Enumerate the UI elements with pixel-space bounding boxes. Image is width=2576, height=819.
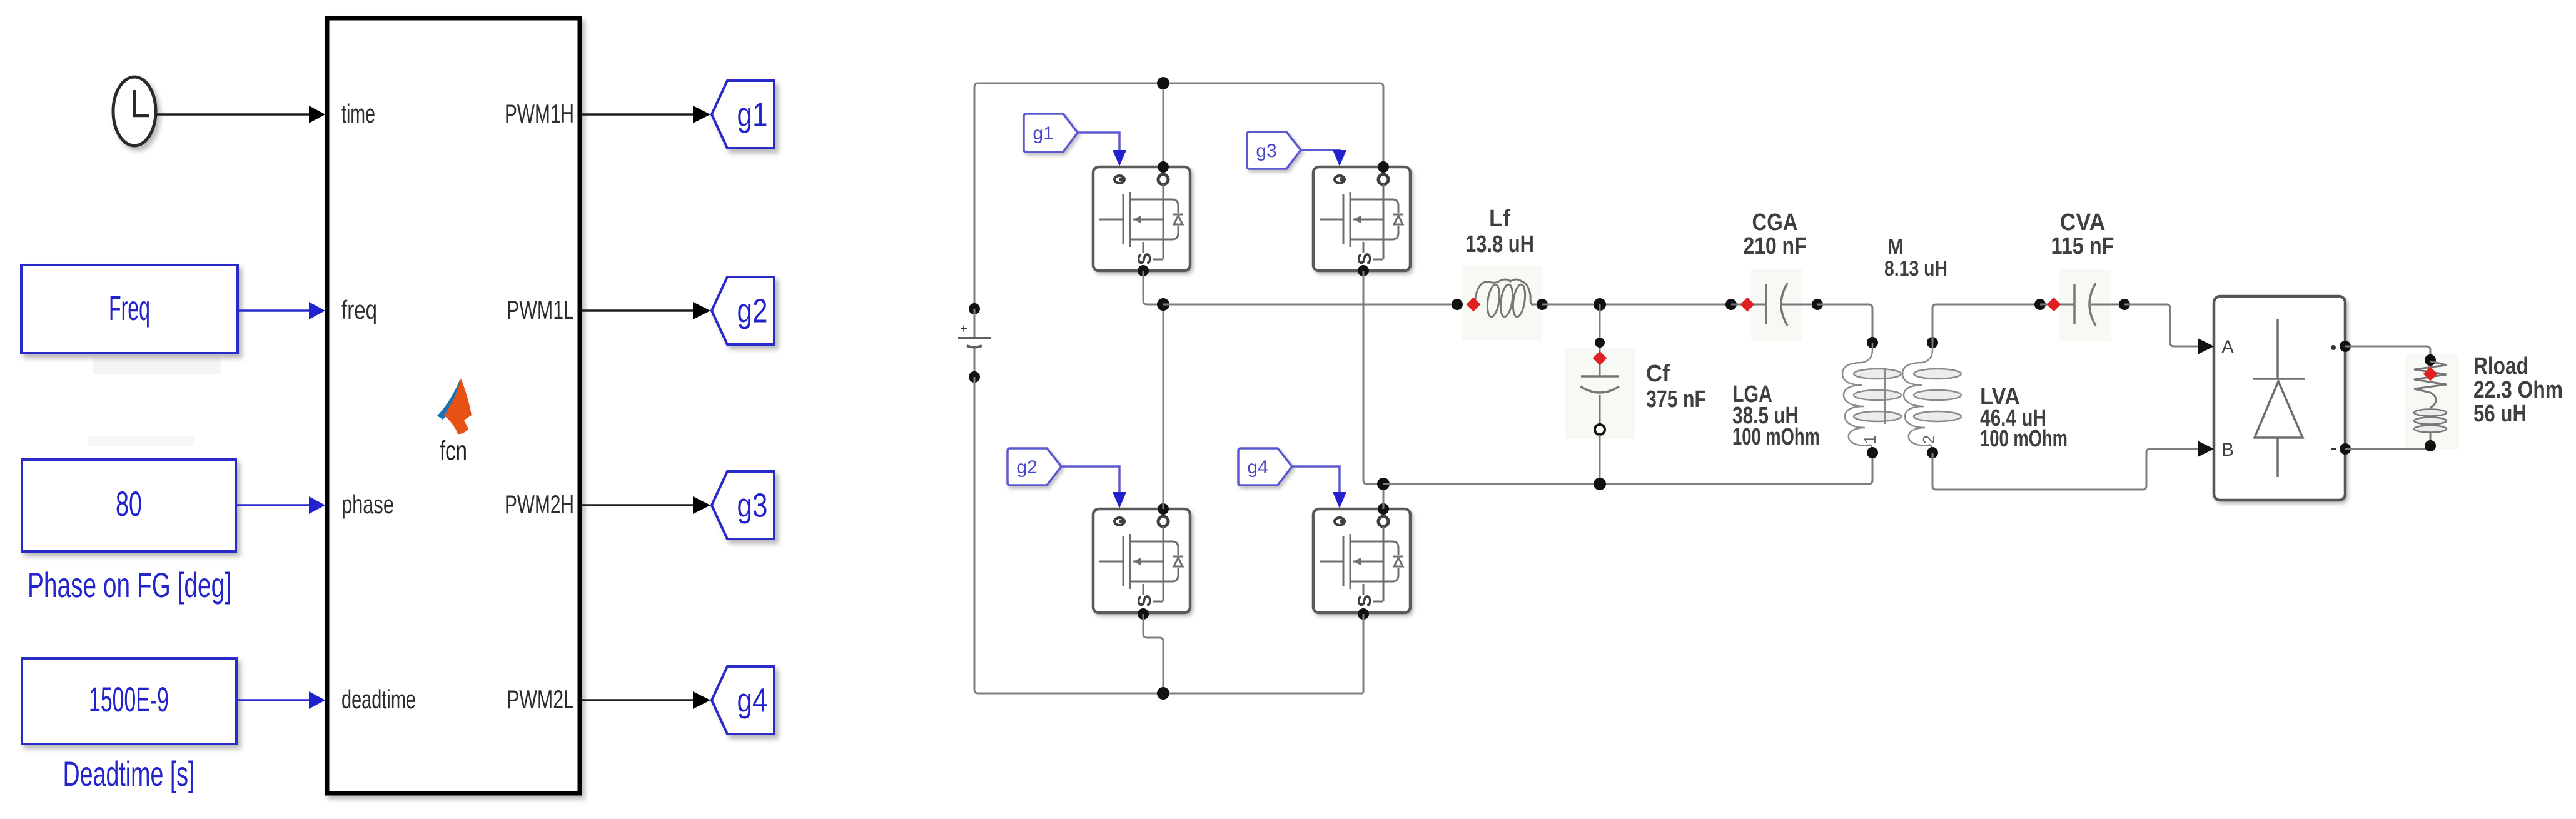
svg-text:g2: g2 [1016,457,1037,478]
svg-text:Freq: Freq [109,288,150,328]
transformer core [1884,368,1886,424]
diode symbol inside rectifier [2253,319,2305,477]
wire rectifier minus to Rload [2345,445,2430,449]
wire Q3 source to bottom rail [1143,614,1163,693]
faint erased-label smudge 2 [88,436,194,446]
goto tag g2 [712,277,774,344]
junction node A [1157,298,1169,311]
svg-text:deadtime: deadtime [341,685,416,714]
wire node B rail to transformer primary bottom [1383,453,1872,484]
node rectifier out minus [2340,443,2351,455]
capacitor Cf [1580,304,1619,484]
wire Q4 source to bottom rail [1363,614,1365,693]
wire 1500E-9 to deadtime input [236,691,325,709]
wire PWM1H to goto g1 [582,106,710,123]
svg-text:Rload: Rload [2473,353,2528,379]
junction top rail node [1157,77,1169,89]
svg-text:g1: g1 [737,96,768,133]
wire Freq to freq input [238,302,325,319]
junction bottom rail node [1157,687,1169,700]
svg-text:375 nF: 375 nF [1646,386,1706,413]
node Q2 drain [1378,161,1389,173]
svg-text:Deadtime [s]: Deadtime [s] [63,754,195,793]
constant block Freq [21,265,238,353]
node Q2 source [1358,265,1369,276]
svg-text:80: 80 [116,484,142,523]
wire g4 to Q4 gate [1292,466,1346,508]
wire mid node A down to Q3 drain [1163,304,1164,509]
svg-text:PWM2L: PWM2L [507,685,574,714]
svg-text:115 nF: 115 nF [2051,233,2114,259]
node Q4 drain [1378,503,1389,515]
transformer secondary winding LVA [1902,337,1961,458]
svg-text:PWM1H: PWM1H [505,99,574,128]
wire CVA to rectifier port A [2124,304,2203,346]
svg-text:g2: g2 [737,292,768,329]
svg-text:1500E-9: 1500E-9 [89,680,169,719]
clock source [113,77,156,146]
wire Q1 source to mid node A [1143,271,1163,304]
svg-text:CGA: CGA [1752,209,1798,236]
wire PWM2H to goto g3 [582,496,710,514]
wire g2 to Q3 gate [1061,466,1126,508]
wire clock to time input [156,106,325,123]
polarity mark plus [2331,345,2336,350]
wire g1 to Q1 gate [1078,133,1126,166]
series RL load Rload [2414,354,2447,451]
junction node C (Cf top) [1594,298,1606,311]
svg-text:g4: g4 [1247,457,1268,478]
svg-text:freq: freq [341,295,377,324]
svg-text:M: M [1887,235,1904,259]
transistor Q1 (MOSFET high side left) [1093,167,1190,271]
port arrow B [2198,441,2214,457]
svg-text:210 nF: 210 nF [1744,233,1807,259]
from tag g1 [1024,114,1078,152]
svg-text:PWM1L: PWM1L [507,295,574,324]
wire node B down to Q4 drain [1383,484,1385,509]
red marker CGA [1740,298,1755,312]
svg-text:time: time [341,99,375,128]
wire top rail to Q1 drain [1163,83,1164,167]
goto tag g1 [712,81,774,148]
MATLAB logo icon [437,378,472,434]
svg-text:g3: g3 [1256,141,1276,161]
svg-text:A: A [2221,337,2234,358]
red marker Rload [2423,367,2438,381]
constant block 1500E-9 (deadtime) [22,658,236,744]
svg-text:13.8 uH: 13.8 uH [1465,231,1534,258]
component tint behind CGA [1751,269,1802,341]
from tag g2 [1008,448,1061,485]
svg-text:Lf: Lf [1489,206,1510,232]
goto tag g4 [712,666,774,734]
faint erased-label smudge 1 [93,358,221,374]
DC voltage source V1 [958,303,991,383]
constant block 80 (phase) [22,460,236,551]
wire node A to Lf [1163,304,1457,306]
wire g3 to Q2 gate [1301,150,1346,166]
wire secondary bottom to rectifier port B [1932,449,2203,490]
wire PWM2L to goto g4 [582,691,710,709]
port arrow A [2198,338,2214,354]
junction node B [1377,478,1390,490]
transistor Q2 (MOSFET high side right) [1313,167,1410,271]
wire top rail [974,83,1383,309]
svg-text:2: 2 [1919,435,1938,444]
svg-text:100 mOhm: 100 mOhm [1732,424,1820,450]
wire rectifier plus to Rload [2345,346,2430,360]
polarity mark minus [2331,448,2336,450]
svg-text:8.13 uH: 8.13 uH [1884,257,1947,281]
svg-text:CVA: CVA [2060,209,2106,236]
from tag g3 [1247,132,1301,169]
MATLAB Function block U1 [327,18,580,793]
node Q1 source [1138,265,1149,276]
node Q1 drain [1158,161,1169,173]
capacitor CGA [1725,283,1823,326]
component tint behind Rload [2405,354,2459,449]
wire battery negative to bottom rail [974,377,1363,693]
svg-text:22.3 Ohm: 22.3 Ohm [2473,377,2563,403]
transistor Q3 (MOSFET low side left) [1093,509,1190,613]
svg-text:B: B [2221,440,2234,460]
wire 80 to phase input [236,496,325,514]
junction Cf bottom rail [1594,478,1606,490]
svg-text:Cf: Cf [1646,361,1670,387]
wire Lf to node C [1542,304,1731,306]
goto tag g3 [712,471,774,539]
svg-text:100 mOhm: 100 mOhm [1980,426,2068,452]
red marker Cf [1593,351,1607,366]
svg-text:g4: g4 [737,681,768,719]
svg-text:fcn: fcn [440,436,467,466]
component tint behind CVA [2059,269,2111,341]
node Q3 source [1138,608,1149,620]
wire CGA to transformer primary top [1817,304,1872,343]
transformer primary winding LGA [1842,337,1901,458]
red marker CVA [2047,298,2061,312]
component tint behind Lf [1462,266,1542,340]
node Q3 drain [1158,503,1169,515]
svg-text:g1: g1 [1033,123,1053,144]
svg-text:Phase on FG [deg]: Phase on FG [deg] [28,565,231,605]
svg-text:phase: phase [341,490,394,519]
rectifier block D1 [2214,296,2345,500]
node Q4 source [1358,608,1369,620]
red marker Lf [1467,298,1481,312]
inductor Lf [1452,279,1548,318]
node rectifier out plus [2340,341,2351,352]
wire PWM1L to goto g2 [582,302,710,319]
capacitor CVA [2034,283,2130,326]
wire Q2 source to node B rail [1363,271,1383,484]
from tag g4 [1238,448,1292,485]
svg-text:g3: g3 [737,486,768,524]
transistor Q4 (MOSFET low side right) [1313,509,1410,613]
svg-text:PWM2H: PWM2H [505,490,574,519]
svg-text:56 uH: 56 uH [2473,401,2527,427]
svg-text:1: 1 [1861,435,1879,444]
wire secondary top to CVA [1932,304,2040,343]
svg-text:+: + [960,322,967,336]
component tint behind Cf [1565,348,1635,439]
